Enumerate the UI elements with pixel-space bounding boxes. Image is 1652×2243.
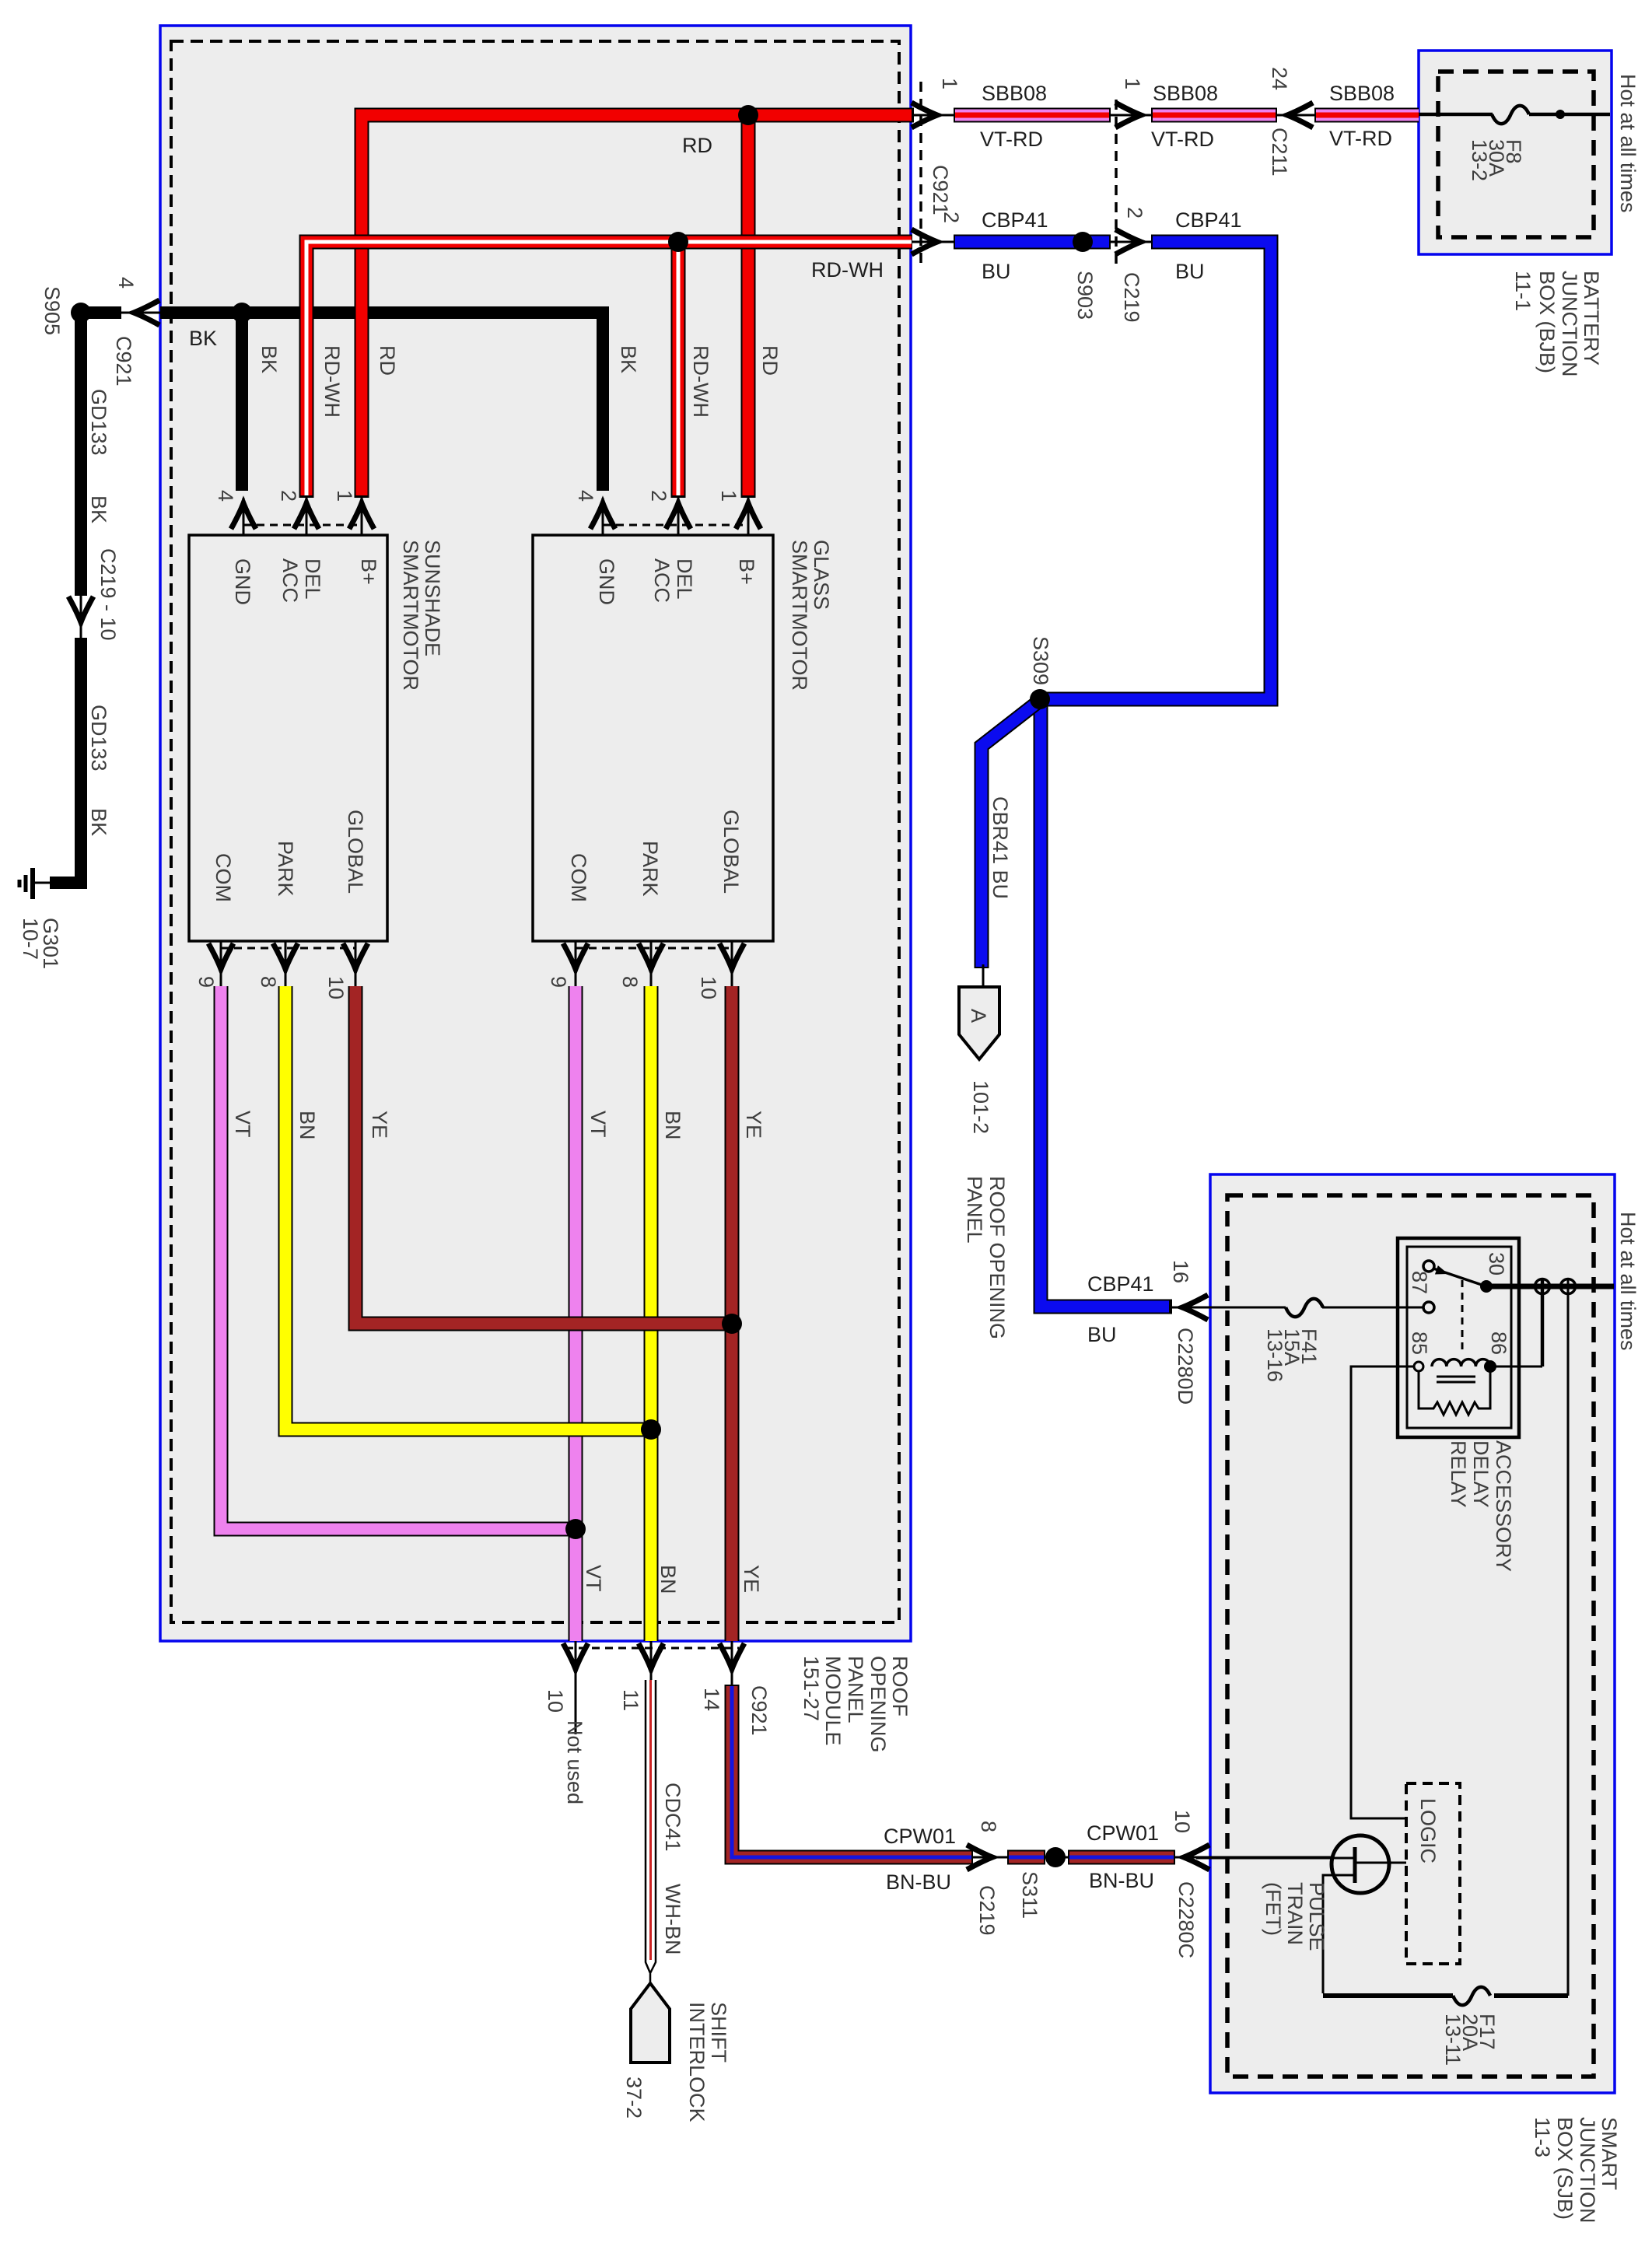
svg-text:BN: BN xyxy=(661,1111,684,1140)
svg-text:CPW01: CPW01 xyxy=(1087,1821,1159,1845)
svg-text:RELAY: RELAY xyxy=(1447,1440,1470,1508)
arrow CPW01 at C2280C (left) xyxy=(1184,1845,1209,1870)
relay coil xyxy=(1432,1359,1490,1366)
svg-text:BN: BN xyxy=(656,1565,680,1594)
wire CBP41 BU segment 1 xyxy=(954,235,1111,250)
svg-text:YE: YE xyxy=(368,1111,391,1139)
svg-text:C219 - 10: C219 - 10 xyxy=(96,548,120,641)
arrow CBP41 at C219 xyxy=(1115,229,1141,254)
svg-text:VT: VT xyxy=(586,1111,610,1138)
svg-text:GD133: GD133 xyxy=(87,389,110,456)
svg-text:BATTERY: BATTERY xyxy=(1580,271,1603,366)
wire RD-WH outline xyxy=(306,242,912,498)
svg-text:37-2: 37-2 xyxy=(622,2077,646,2119)
svg-text:DELAY: DELAY xyxy=(1469,1440,1493,1508)
svg-text:Hot at all times: Hot at all times xyxy=(1616,1212,1640,1351)
svg-text:RD-WH: RD-WH xyxy=(689,345,712,418)
svg-text:B+: B+ xyxy=(357,558,380,585)
smart junction box (blue) xyxy=(1210,1174,1615,2093)
module bottom pin dashed row xyxy=(565,1647,739,1650)
svg-text:C211: C211 xyxy=(1268,128,1291,177)
svg-text:8: 8 xyxy=(618,976,642,988)
svg-text:VT-RD: VT-RD xyxy=(980,128,1043,151)
junction S903 xyxy=(1073,232,1093,252)
wire CBP41 BU vertical below S309 xyxy=(1041,699,1172,1307)
svg-text:13-11: 13-11 xyxy=(1441,2014,1465,2066)
arrow CBP41 at C2280D (left) xyxy=(1182,1295,1208,1320)
relay pin 30 dot xyxy=(1480,1280,1493,1293)
fuse F8 30A xyxy=(1492,106,1529,124)
hot at all times feed line (SJB) xyxy=(1486,1284,1614,1289)
pin stems glass bottom xyxy=(576,941,732,986)
pin arrows glass top (up) xyxy=(590,503,615,529)
wire VT-RD SBB08 segment 2 xyxy=(1151,108,1277,123)
svg-text:PANEL: PANEL xyxy=(963,1176,986,1244)
svg-text:BU: BU xyxy=(1087,1323,1117,1346)
wire BN sunshade PARK vertical (yellow) xyxy=(285,986,658,1429)
svg-text:2: 2 xyxy=(1123,207,1146,219)
wire RD-WH branch to glass DEL ACC xyxy=(671,242,686,498)
svg-text:CBP41: CBP41 xyxy=(1175,208,1242,232)
wire CPW01 BN-BU segment 3 xyxy=(1068,1850,1175,1865)
svg-text:SBB08: SBB08 xyxy=(1329,82,1395,105)
wire RD bus thin core xyxy=(362,115,1419,124)
svg-text:CPW01: CPW01 xyxy=(884,1825,956,1848)
connector C219 dashed line xyxy=(1115,100,1118,264)
arrow SBB08 at C219 xyxy=(1115,103,1141,128)
BJB dot xyxy=(1556,110,1565,119)
wire RD branch to glass B+ xyxy=(741,115,756,498)
wire CPW01 BN-BU segment 2 xyxy=(1007,1850,1045,1865)
svg-text:2: 2 xyxy=(277,490,300,502)
svg-text:CBR41 BU: CBR41 BU xyxy=(989,796,1012,899)
svg-text:PARK: PARK xyxy=(274,841,297,897)
svg-text:4: 4 xyxy=(114,277,138,289)
BJB fuse F8 line xyxy=(1419,113,1610,117)
relay pin 87 upper contact circle xyxy=(1423,1261,1434,1272)
svg-text:BK: BK xyxy=(87,808,110,836)
svg-text:SBB08: SBB08 xyxy=(1153,82,1218,105)
svg-text:BU: BU xyxy=(982,260,1011,283)
connector C921 dashed line (right of module) xyxy=(919,82,922,264)
svg-text:VT-RD: VT-RD xyxy=(1329,127,1392,150)
arrow SBB08 at C921 xyxy=(912,103,937,128)
svg-text:YE: YE xyxy=(742,1111,765,1139)
shift interlock pentagon xyxy=(631,1983,670,2063)
svg-text:S309: S309 xyxy=(1029,636,1052,685)
module bottom connector arrows (down) xyxy=(563,1643,588,1669)
relay switch blade 30-87 xyxy=(1433,1268,1486,1286)
wire CPW01 BN-BU thin core xyxy=(732,1856,1331,1859)
svg-text:CDC41: CDC41 xyxy=(661,1783,684,1852)
wire CDC41 WH-BN double line xyxy=(646,1680,656,1985)
pin 86 to branch1 line xyxy=(1490,1366,1542,1368)
svg-text:DEL: DEL xyxy=(673,558,696,600)
arrow BK at C219-10 (down) xyxy=(68,597,93,622)
wire RD-WH white stripe xyxy=(306,242,912,495)
pin stems sunshade bottom xyxy=(221,941,355,986)
svg-text:4: 4 xyxy=(214,490,237,502)
sunshade smartmotor box U1 xyxy=(189,535,387,941)
svg-text:C219: C219 xyxy=(975,1885,999,1936)
sunshade bottom pin dashed row xyxy=(221,947,355,950)
svg-text:9: 9 xyxy=(194,976,218,988)
svg-text:14: 14 xyxy=(700,1688,723,1711)
svg-text:16: 16 xyxy=(1169,1260,1192,1283)
svg-text:TRAIN: TRAIN xyxy=(1283,1882,1307,1945)
wire CBP41 BU segment 2 to S309 xyxy=(1045,242,1271,699)
relay pin 87 lower contact xyxy=(1423,1302,1434,1313)
svg-text:RD-WH: RD-WH xyxy=(811,258,884,282)
ground symbol G301 xyxy=(19,868,50,899)
svg-text:INTERLOCK: INTERLOCK xyxy=(685,2002,709,2122)
wire BN-BU from pin 14 xyxy=(732,1685,973,1857)
svg-text:30: 30 xyxy=(1485,1252,1508,1275)
svg-text:ACC: ACC xyxy=(650,558,674,603)
svg-text:C219: C219 xyxy=(1120,272,1143,323)
glass bottom pin dashed row xyxy=(576,947,732,950)
svg-text:1: 1 xyxy=(717,490,740,502)
FET pulse train circle xyxy=(1332,1835,1389,1893)
svg-text:SUNSHADE: SUNSHADE xyxy=(421,540,444,656)
battery junction box (blue) xyxy=(1419,51,1612,254)
svg-text:C921: C921 xyxy=(112,336,135,387)
svg-text:CBP41: CBP41 xyxy=(1087,1272,1154,1296)
svg-text:GLOBAL: GLOBAL xyxy=(719,810,743,894)
svg-text:VT: VT xyxy=(231,1111,254,1138)
svg-text:GLASS: GLASS xyxy=(810,540,833,610)
svg-text:JUNCTION: JUNCTION xyxy=(1576,2117,1599,2224)
svg-text:COM: COM xyxy=(212,853,235,902)
wire VT-RD SBB08 segment 1 xyxy=(954,108,1111,123)
svg-text:BN: BN xyxy=(296,1111,319,1140)
module inner dashed border xyxy=(171,41,899,1622)
FET source line xyxy=(1323,1875,1355,1993)
wire BK S905 stub xyxy=(81,306,121,319)
svg-text:1: 1 xyxy=(1121,78,1144,89)
wire RD (B+ feed) outline xyxy=(362,115,914,498)
svg-text:4: 4 xyxy=(574,490,597,502)
svg-text:SMARTMOTOR: SMARTMOTOR xyxy=(788,540,811,691)
svg-text:(FET): (FET) xyxy=(1262,1882,1285,1936)
svg-text:11-3: 11-3 xyxy=(1531,2117,1554,2157)
logic dashed box xyxy=(1406,1783,1460,1964)
svg-text:BK: BK xyxy=(257,345,281,373)
wire VT-RD SBB08 segment 3 xyxy=(1314,108,1419,123)
svg-text:85: 85 xyxy=(1408,1331,1431,1355)
accessory delay relay outer box xyxy=(1398,1238,1519,1437)
svg-text:BOX (SJB): BOX (SJB) xyxy=(1553,2117,1577,2220)
svg-text:VT: VT xyxy=(582,1565,605,1592)
svg-text:LOGIC: LOGIC xyxy=(1416,1798,1440,1863)
svg-text:BN-BU: BN-BU xyxy=(1089,1869,1154,1892)
svg-text:BK: BK xyxy=(617,345,640,373)
svg-text:COM: COM xyxy=(567,853,590,902)
BJB inner dashed border xyxy=(1438,72,1594,237)
pin arrows sunshade bottom (down) xyxy=(208,943,233,969)
arrow CBP41 at C921 xyxy=(912,229,937,254)
pin arrows sunshade top (up) xyxy=(231,503,256,529)
svg-text:1: 1 xyxy=(938,78,961,89)
arrow CPW01 at C219 xyxy=(967,1845,992,1870)
svg-text:101-2: 101-2 xyxy=(969,1080,992,1134)
thin core CBP41 to F41 xyxy=(1171,1307,1424,1309)
svg-text:MODULE: MODULE xyxy=(821,1656,845,1746)
svg-text:1: 1 xyxy=(333,490,356,502)
thin core to connector A xyxy=(982,964,985,987)
pin 85 line to logic xyxy=(1351,1366,1414,1818)
svg-text:JUNCTION: JUNCTION xyxy=(1558,271,1581,377)
wire RD-WH color xyxy=(306,242,912,495)
roof opening panel module box (blue) xyxy=(160,26,911,1641)
wire CDC41 WH-BN red core xyxy=(649,1680,652,1960)
svg-text:11-1: 11-1 xyxy=(1511,271,1535,311)
connector A pentagon xyxy=(959,987,999,1059)
relay core lines xyxy=(1437,1377,1475,1382)
wire BK branch to sunshade GND xyxy=(236,313,248,491)
svg-text:86: 86 xyxy=(1487,1331,1510,1355)
svg-text:GD133: GD133 xyxy=(87,705,110,772)
svg-text:C2280D: C2280D xyxy=(1174,1328,1197,1405)
svg-text:9: 9 xyxy=(547,976,570,988)
pin 11 stub xyxy=(650,1641,653,1680)
svg-text:2: 2 xyxy=(647,490,670,502)
svg-text:BU: BU xyxy=(1175,260,1205,283)
svg-text:WH-BN: WH-BN xyxy=(661,1884,684,1954)
arrow BK at C921 left xyxy=(134,300,159,325)
wire RD-WH bus thin core xyxy=(306,242,1271,249)
svg-text:SHIFT: SHIFT xyxy=(707,2002,730,2063)
svg-text:RD: RD xyxy=(682,134,712,157)
FET gate line from C2280C xyxy=(1196,1857,1353,1860)
wire VT sunshade COM vertical xyxy=(221,986,583,1529)
FET gate bar xyxy=(1353,1847,1357,1883)
svg-text:ACC: ACC xyxy=(278,558,302,603)
svg-text:RD-WH: RD-WH xyxy=(320,345,344,418)
branch circle 1 xyxy=(1541,1279,1545,1366)
junction dot BK to sunshade GND xyxy=(232,303,252,323)
wire BK ground run S905 to G301 xyxy=(50,313,81,883)
svg-text:10-7: 10-7 xyxy=(19,918,42,960)
glass top pin dashed row xyxy=(603,524,748,527)
FET drain to logic xyxy=(1355,1862,1406,1864)
fuse F41 15A xyxy=(1286,1299,1323,1317)
wire CBR41 BU diagonal branch to connector A xyxy=(982,702,1038,968)
svg-text:CBP41: CBP41 xyxy=(982,208,1048,232)
svg-text:RD: RD xyxy=(758,345,782,376)
svg-text:Hot at all times: Hot at all times xyxy=(1616,74,1640,213)
relay switch arrowhead xyxy=(1435,1265,1450,1279)
svg-text:PANEL: PANEL xyxy=(844,1656,867,1723)
branch circle 2 xyxy=(1567,1279,1570,1996)
svg-text:VT-RD: VT-RD xyxy=(1151,128,1214,151)
svg-text:13-16: 13-16 xyxy=(1263,1328,1286,1382)
pin stems sunshade top xyxy=(243,498,362,535)
svg-text:10: 10 xyxy=(544,1689,567,1713)
svg-text:RD: RD xyxy=(376,345,399,376)
wire BK main bus with corner to glass GND xyxy=(160,313,603,491)
svg-text:S905: S905 xyxy=(40,286,64,335)
wire RD (B+ feed) xyxy=(362,115,912,495)
svg-text:24: 24 xyxy=(1268,67,1291,90)
relay resistor xyxy=(1419,1371,1490,1415)
wire BN glass PARK vertical (yellow) xyxy=(644,986,659,1641)
wire YE sunshade GLOBAL vertical (maroon) xyxy=(355,986,739,1324)
junction dot BN xyxy=(641,1419,661,1440)
junction dot RD-WH to glass DEL ACC xyxy=(668,232,688,252)
svg-text:DEL: DEL xyxy=(301,558,324,600)
svg-text:8: 8 xyxy=(257,976,280,988)
svg-text:S311: S311 xyxy=(1018,1871,1041,1919)
svg-text:87: 87 xyxy=(1408,1271,1431,1294)
svg-text:C921: C921 xyxy=(747,1685,771,1736)
SJB inner dashed border xyxy=(1227,1195,1594,2077)
junction S309 xyxy=(1030,689,1050,709)
relay dashed link xyxy=(1461,1280,1464,1355)
svg-text:GND: GND xyxy=(231,558,254,605)
svg-text:10: 10 xyxy=(697,976,720,999)
svg-text:10: 10 xyxy=(1171,1810,1194,1833)
accessory delay relay inner box xyxy=(1407,1247,1511,1428)
svg-text:S903: S903 xyxy=(1073,271,1097,320)
pin stems glass top xyxy=(603,498,748,535)
svg-text:11: 11 xyxy=(619,1689,642,1711)
svg-text:GND: GND xyxy=(595,558,618,605)
svg-text:A: A xyxy=(967,1009,990,1023)
pin arrows glass bottom (down) xyxy=(563,943,588,969)
svg-text:SBB08: SBB08 xyxy=(982,82,1047,105)
F17 feed line xyxy=(1323,1993,1568,1998)
junction dot VT xyxy=(565,1519,586,1539)
svg-text:SMARTMOTOR: SMARTMOTOR xyxy=(399,540,422,691)
svg-text:BK: BK xyxy=(87,495,110,523)
svg-text:BK: BK xyxy=(189,327,217,350)
svg-text:151-27: 151-27 xyxy=(800,1656,823,1721)
junction dot RD to glass B+ xyxy=(738,105,758,125)
splice S905 xyxy=(71,303,91,323)
sunshade top pin dashed row xyxy=(243,524,362,527)
arrow SBB08 at C211 (left) xyxy=(1287,103,1313,128)
svg-text:BN-BU: BN-BU xyxy=(886,1870,951,1894)
svg-text:13-2: 13-2 xyxy=(1468,139,1491,181)
glass smartmotor box U2 xyxy=(533,535,773,941)
svg-text:Not used: Not used xyxy=(563,1720,586,1804)
svg-text:YE: YE xyxy=(740,1565,763,1593)
svg-text:ROOF OPENING: ROOF OPENING xyxy=(985,1176,1009,1339)
relay pin 86 dot xyxy=(1484,1360,1496,1373)
svg-text:C921: C921 xyxy=(929,165,952,215)
pin 14 stub xyxy=(731,1641,733,1686)
svg-text:OPENING: OPENING xyxy=(866,1656,890,1753)
thin core through C219-10 connector on ground run xyxy=(80,591,82,642)
wire YE glass GLOBAL vertical (maroon) xyxy=(725,986,740,1641)
svg-text:PULSE: PULSE xyxy=(1305,1882,1328,1951)
svg-text:ROOF: ROOF xyxy=(888,1656,912,1716)
svg-text:PARK: PARK xyxy=(639,841,662,897)
junction dot YE xyxy=(722,1314,742,1334)
wire VT glass COM vertical xyxy=(569,986,583,1641)
svg-text:SMART: SMART xyxy=(1598,2117,1621,2190)
pin 10 not used stub xyxy=(575,1641,577,1734)
wire BK bus thin core xyxy=(92,312,603,314)
svg-text:C2280C: C2280C xyxy=(1174,1881,1198,1958)
svg-text:ACCESSORY: ACCESSORY xyxy=(1492,1440,1515,1572)
junction S311 xyxy=(1045,1847,1066,1867)
svg-text:10: 10 xyxy=(324,976,348,999)
svg-text:GLOBAL: GLOBAL xyxy=(344,810,367,894)
fuse F17 20A xyxy=(1453,1987,1490,2005)
svg-text:B+: B+ xyxy=(735,558,758,585)
relay pin 85 contact xyxy=(1414,1362,1423,1371)
svg-text:8: 8 xyxy=(977,1821,1000,1832)
svg-text:BOX (BJB): BOX (BJB) xyxy=(1535,271,1559,373)
